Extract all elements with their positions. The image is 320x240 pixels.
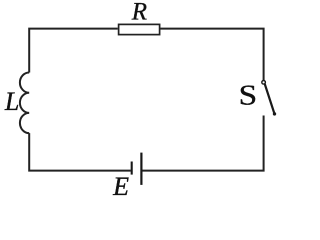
switch S blade (open, angled down-right) — [265, 84, 275, 113]
battery E positive plate (long) — [140, 153, 142, 185]
wire bottom-right segment (right wire below switch, bottom wire to battery) — [141, 116, 263, 171]
svg-text:S: S — [239, 78, 258, 110]
wire top-right segment (top wire from resistor, right wire down to switch pivot) — [160, 29, 263, 81]
svg-text:L: L — [4, 87, 19, 116]
wire top-left segment (top wire to resistor, left wire down to inductor) — [29, 29, 118, 73]
battery E negative plate (short) — [131, 162, 133, 175]
wire bottom-left segment (left wire below inductor, bottom wire to battery) — [29, 133, 131, 171]
switch S pivot circle — [262, 81, 266, 85]
switch S blade end blob — [273, 112, 276, 115]
inductor L (3-loop coil on left wire) — [20, 72, 29, 133]
svg-text:E: E — [112, 172, 129, 201]
svg-text:R: R — [131, 0, 147, 26]
resistor R (box on top wire) — [119, 24, 160, 34]
